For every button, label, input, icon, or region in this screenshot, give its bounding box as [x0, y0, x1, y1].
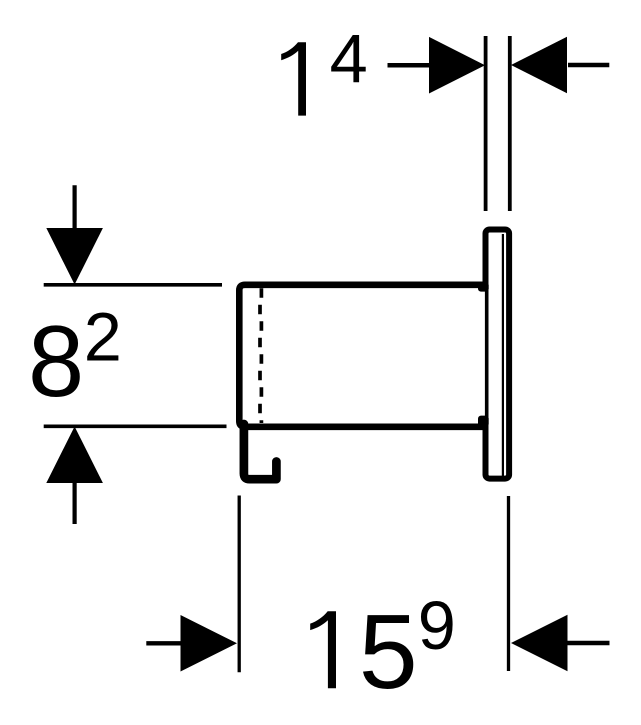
- wall flange plate (side view): [486, 230, 510, 479]
- socket inner dashed line offset dashes: [258, 288, 262, 423]
- dim 159: label 15: [310, 611, 336, 688]
- dim 14: extension line left: [484, 36, 488, 211]
- dim 82: bottom shaft: [72, 478, 76, 524]
- dim 159: right arrowhead: [511, 615, 568, 672]
- dim 82: down arrowhead: [46, 228, 103, 285]
- dim 14: right leader shaft: [568, 63, 609, 68]
- svg-text:5: 5: [359, 593, 418, 711]
- dim 14: left leader shaft: [388, 63, 433, 68]
- socket body fill: [239, 285, 486, 427]
- flange left edge thin line inside socket: [485, 288, 488, 424]
- dim 159: right extension line: [507, 496, 510, 671]
- dim 82: bottom dimension line: [44, 424, 227, 428]
- svg-text:8: 8: [28, 306, 84, 418]
- dim 14: left arrowhead: [429, 37, 485, 94]
- dim 159: left leader shaft: [146, 641, 185, 645]
- dim 82: top dimension line: [44, 283, 222, 287]
- dim 14: label 1: [281, 42, 306, 115]
- dim 14: right arrowhead: [511, 37, 567, 94]
- socket inner dashed line: [260, 288, 264, 423]
- socket end bead bottom: [478, 416, 489, 427]
- flange face thin line: [502, 234, 504, 476]
- dim 159: right leader shaft: [567, 641, 610, 645]
- dim 82: up arrowhead: [46, 427, 103, 484]
- socket body outline: [239, 285, 486, 427]
- dim 159: left extension line: [238, 496, 241, 673]
- svg-text:2: 2: [84, 299, 122, 376]
- dim 14: extension line right: [508, 36, 512, 211]
- dim 159: left arrowhead: [181, 615, 238, 672]
- svg-text:9: 9: [418, 587, 456, 664]
- dim 82: top shaft: [72, 185, 76, 240]
- retaining hook: [244, 424, 277, 479]
- socket end bead top: [478, 282, 489, 291]
- svg-text:4: 4: [330, 20, 368, 97]
